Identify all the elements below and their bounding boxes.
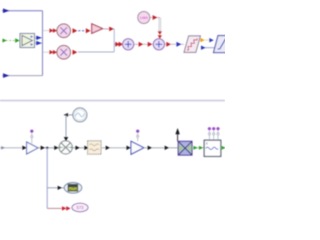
- gain K1: [92, 24, 103, 34]
- annotation marks above FIR F2: [208, 127, 220, 140]
- wire P1 to gain K1: [73, 28, 91, 33]
- wire U1 lower output: [35, 41, 43, 45]
- annotation mark above amp A1: [136, 130, 139, 142]
- wire X1 to FIR F2 (green): [192, 146, 204, 150]
- numeric display block: [72, 203, 88, 212]
- mixer M1: [59, 141, 72, 154]
- product P2: [57, 45, 71, 59]
- quantizer Q1 (parallelogram with zigzag): [184, 36, 200, 53]
- constant C1: [138, 12, 150, 24]
- output wire (right edge, green): [221, 146, 226, 150]
- wire P2 to sum S1: [73, 50, 115, 55]
- wire branch to numeric display: [47, 206, 70, 210]
- amplifier A1: [131, 141, 144, 154]
- annotation mark above gain G1: [30, 130, 33, 144]
- svg-text:1484: 1484: [140, 16, 148, 20]
- wire U1 upper output: [35, 36, 43, 40]
- local oscillator OSC: [73, 108, 87, 122]
- wire branch down to scope/display: [46, 148, 48, 208]
- wire C1 down into S2: [150, 15, 162, 39]
- wire Q1 upper output (orange): [200, 38, 213, 43]
- wire (long vertical bus from In1 down to In3): [42, 11, 44, 76]
- wire M1 to filter F1: [72, 146, 88, 150]
- splitter/demux block U1: [20, 34, 35, 48]
- svg-text:573: 573: [77, 205, 85, 210]
- wire into product P2: [43, 50, 57, 54]
- input port In2 (green dashed): [2, 38, 20, 42]
- input port In3 (bottom-left): [2, 73, 43, 78]
- wire Q1 lower output (blue): [201, 46, 216, 50]
- saturation block (parallelogram with limit curve): [214, 36, 233, 53]
- filter F1 (dashed box with squiggles): [88, 141, 101, 154]
- wire junction into S1: [114, 42, 123, 47]
- input port In1 (top-left): [2, 8, 43, 13]
- sum S1: [123, 39, 134, 50]
- FIR filter F2: [204, 140, 221, 156]
- wire A1 to mixer X1: [144, 146, 178, 150]
- wire X1 up-stub output: [175, 128, 179, 141]
- wire S1 to S2: [135, 42, 153, 47]
- sum S2: [153, 39, 164, 50]
- wire branch to scope: [47, 186, 64, 190]
- node: branch junction: [46, 147, 48, 149]
- wire into product P1: [43, 28, 57, 32]
- wire OSC down into M1: [64, 113, 73, 141]
- wire S2 to quantizer: [165, 42, 184, 47]
- gain G1: [27, 142, 38, 154]
- wire F1 to amp A1: [101, 146, 131, 150]
- product P1: [57, 24, 71, 38]
- scope block: [64, 183, 82, 194]
- mixer X1 (blue X block): [178, 141, 192, 155]
- wire K1 output down to sum S1: [103, 27, 114, 52]
- input wire (left edge): [0, 146, 27, 150]
- wire G1 to mixer M1: [38, 146, 59, 150]
